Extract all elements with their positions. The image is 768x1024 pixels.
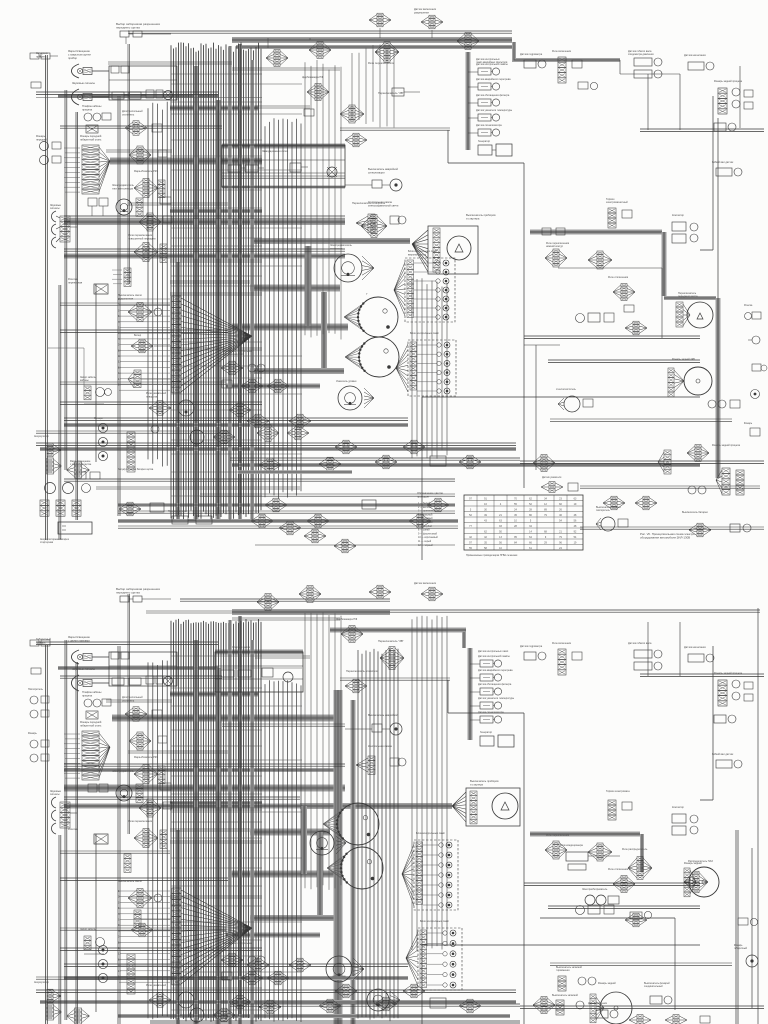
svg-text:52: 52 xyxy=(469,514,472,517)
cluster gidrometr xyxy=(520,53,546,68)
svg-text:Повторитель: Повторитель xyxy=(28,688,44,691)
conn boxes R2 lower xyxy=(221,668,293,682)
junction box R2 xyxy=(222,145,345,187)
svg-text:46: 46 xyxy=(559,514,562,517)
comp 638x915 lower xyxy=(630,911,652,919)
svg-text:Блок контрольных ламп: Блок контрольных ламп xyxy=(416,831,445,835)
svg-text:Датчик гидрометра: Датчик гидрометра xyxy=(520,645,543,648)
terminal strip 127x432 xyxy=(127,432,135,472)
wire bus y880 lower xyxy=(60,878,228,880)
svg-text:габаритный: габаритный xyxy=(734,947,748,950)
svg-text:30: 30 xyxy=(484,508,487,511)
rear lamp circle lower xyxy=(590,982,632,1024)
loom band y211 cross xyxy=(170,209,262,213)
motor vent lower xyxy=(112,769,171,802)
fan1 wires lower xyxy=(99,733,110,778)
wire trunk main lower xyxy=(171,619,261,1022)
wire bus y350 xyxy=(170,348,262,350)
conn top 378x20 xyxy=(369,13,391,27)
cluster zapor kabel xyxy=(80,376,112,404)
svg-text:Фонари: Фонари xyxy=(94,417,103,420)
rele signal circle lower xyxy=(310,831,346,855)
box 398x92 xyxy=(392,88,420,96)
wire bus y1022 lower xyxy=(150,1021,520,1023)
wire bus y205 xyxy=(128,203,228,205)
svg-text:63: 63 xyxy=(574,497,577,500)
conn 240x1000 lower xyxy=(229,995,251,1009)
motor vent circle xyxy=(116,199,132,215)
label avar xyxy=(368,167,398,174)
label perekl otop xyxy=(352,201,386,205)
wire bus y898 lower xyxy=(170,896,262,898)
loom band vertical x304 lower xyxy=(301,806,307,874)
svg-text:Датчик аварийного перегрева: Датчик аварийного перегрева xyxy=(476,78,511,81)
svg-text:Реле указателей: Реле указателей xyxy=(146,983,167,987)
svg-text:Звуковые сигналы: Звуковые сигналы xyxy=(72,667,95,671)
wire bus y481 xyxy=(64,479,455,481)
loom band R2 top lower xyxy=(215,650,303,655)
cluster circle 572x400 xyxy=(556,388,593,412)
svg-text:с двумя лампами: с двумя лампами xyxy=(68,639,90,642)
loom band trunk v5 lower xyxy=(250,640,254,1024)
conn top 430x22 xyxy=(414,7,443,29)
label header top-left xyxy=(116,22,160,30)
wire frame y945 lower xyxy=(422,945,700,1024)
svg-text:Розетка: Розетка xyxy=(744,305,753,307)
svg-text:10: 10 xyxy=(118,941,121,944)
svg-text:и стартера: и стартера xyxy=(470,783,483,786)
loom band y222 xyxy=(64,219,345,225)
svg-text:Блок кондиционера: Блок кондиционера xyxy=(560,844,583,847)
svg-text:82: 82 xyxy=(559,503,562,506)
cluster fan feed xyxy=(129,146,167,164)
lamp block 2 xyxy=(408,331,456,396)
svg-text:Датчик контрольных ламп: Датчик контрольных ламп xyxy=(478,650,509,653)
loom band right staircase xyxy=(530,232,716,298)
loom band trunk v2 lower xyxy=(216,668,221,1024)
conn 470x462 xyxy=(459,455,481,469)
battery box xyxy=(40,522,92,544)
cluster kontr lower xyxy=(356,744,406,774)
svg-text:9 — фиолетовый: 9 — фиолетовый xyxy=(418,532,438,535)
svg-text:15: 15 xyxy=(118,378,121,381)
wire bus y332 xyxy=(60,330,228,332)
wire bus right y163 xyxy=(620,60,680,74)
sensor lower Датчик указателя температуры xyxy=(470,697,514,709)
svg-text:спидометра давления: спидометра давления xyxy=(628,53,654,56)
label zabornik left xyxy=(36,51,49,58)
wire bus y843 lower xyxy=(170,841,262,843)
wire trunk main bundle xyxy=(171,42,261,519)
svg-text:Указатель уровня: Указатель уровня xyxy=(336,380,357,383)
wire trunk crossings upper lower xyxy=(171,656,302,886)
loom band y108 cross xyxy=(170,106,258,111)
svg-text:сигнализации: сигнализации xyxy=(368,171,385,174)
conn 545x462 xyxy=(533,455,555,472)
fan lampblock2 xyxy=(396,344,408,392)
svg-text:Реле включения: Реле включения xyxy=(552,642,572,645)
wire bus y33 top xyxy=(128,31,512,33)
fuse boxes xyxy=(168,510,212,524)
svg-text:42: 42 xyxy=(469,536,472,539)
conn 268x1006 lower xyxy=(259,999,341,1014)
right edge comp 368 xyxy=(752,364,767,371)
svg-text:14: 14 xyxy=(529,530,532,533)
loom band sensor ladder spine xyxy=(466,52,471,150)
svg-text:80: 80 xyxy=(529,514,532,517)
cluster rele perekl xyxy=(134,243,167,263)
wire vertical x77 lower xyxy=(76,662,78,1024)
svg-text:фарбокамера ПФ: фарбокамера ПФ xyxy=(302,75,323,79)
svg-text:Выключатель запасной: Выключатель запасной xyxy=(552,994,579,997)
svg-text:13: 13 xyxy=(499,536,502,539)
wire bus y726 box lower xyxy=(222,724,345,726)
connector boxes R2 xyxy=(228,165,264,172)
right edge comp 432 xyxy=(744,422,760,436)
label rku xyxy=(134,169,158,173)
wire bus y766 lower xyxy=(64,764,345,766)
wire vertical x59 lower xyxy=(59,835,61,1024)
wire bus right y1008 lower xyxy=(520,1006,764,1008)
cluster fen xyxy=(139,213,172,231)
svg-text:10 — коричневый: 10 — коричневый xyxy=(418,536,438,539)
lamp pair lower 1 xyxy=(28,688,49,718)
svg-text:Датчик указателя температуры: Датчик указателя температуры xyxy=(476,109,512,112)
conn boxes R1 lower xyxy=(111,652,141,685)
svg-text:92: 92 xyxy=(574,530,577,533)
conn 470x1006 lower xyxy=(459,999,481,1013)
wire bus y218 xyxy=(64,216,345,218)
svg-text:Фара-Освещение: Фара-Освещение xyxy=(68,49,90,53)
loom band trunk vertical 5 xyxy=(250,60,254,520)
ignition switch xyxy=(428,213,496,274)
wire bus right y462 xyxy=(520,461,764,463)
conn cluster diag 3 xyxy=(304,529,326,543)
cluster kontr lampa xyxy=(356,214,406,232)
rele raspred cluster lower xyxy=(622,848,652,879)
cluster vkl shtoka xyxy=(552,50,582,83)
svg-text:проводов: проводов xyxy=(417,495,429,498)
gauge circle 2 lower xyxy=(327,847,383,889)
svg-text:Реле включения: Реле включения xyxy=(552,50,572,53)
cluster datchik gibkiy lower xyxy=(628,642,662,670)
small pair 714x404 xyxy=(708,400,740,408)
loom band trunk vertical 1 xyxy=(194,66,199,522)
gauge circle 1 xyxy=(344,293,398,337)
wire vertical pair x66 xyxy=(65,90,67,470)
loom band right staircase lower xyxy=(530,834,642,872)
wire bus y979 lower xyxy=(36,977,230,979)
label perekl ZV xyxy=(378,91,404,95)
pair boxes 580x85 xyxy=(578,82,598,90)
cluster rele perekl right xyxy=(545,242,612,269)
fan lampblock1 lower xyxy=(402,844,414,906)
loom band y788 lower xyxy=(64,785,345,792)
conn 415x447 xyxy=(403,440,425,454)
lamp pair 698x490 xyxy=(688,486,706,494)
label vykl podkap xyxy=(118,293,142,300)
wire bus y128 xyxy=(60,126,222,128)
comp right 744x922 lower xyxy=(738,918,758,926)
cluster rele perekl lower xyxy=(128,819,167,848)
comp avar lower xyxy=(345,713,402,735)
conn pair b lower xyxy=(299,586,321,603)
svg-text:97: 97 xyxy=(469,497,472,500)
svg-text:35: 35 xyxy=(484,541,487,544)
right small 123 xyxy=(714,123,736,131)
loom band y371 xyxy=(250,368,344,374)
svg-text:91: 91 xyxy=(484,497,487,500)
bl circles xyxy=(45,483,91,494)
wire trunk x360 lower xyxy=(358,648,398,1021)
svg-text:переднего моста: переднего моста xyxy=(678,295,698,298)
wiper motor cluster xyxy=(596,506,628,531)
conn 634x328 xyxy=(624,305,647,335)
loom band ladder spine lower xyxy=(468,648,473,740)
svg-text:56: 56 xyxy=(499,541,502,544)
ammeter circle A xyxy=(676,292,713,328)
svg-text:26: 26 xyxy=(559,508,562,511)
junction box R2 lower xyxy=(215,645,303,692)
wire bus y513 xyxy=(118,511,455,513)
loom band y241 ignition feed xyxy=(252,238,410,244)
wire bus y95 left thin xyxy=(36,92,262,98)
headlight upper lower xyxy=(72,650,110,664)
labels fan2 numbers lower xyxy=(118,890,121,979)
label sensors top xyxy=(476,58,508,64)
wire bus y460 xyxy=(230,458,520,460)
wire size table xyxy=(464,495,583,550)
component box R2 xyxy=(290,163,308,172)
wire bus y810 lower xyxy=(170,808,262,810)
loom band wide x338 lower xyxy=(334,690,343,1024)
svg-text:Датчик нагнетания: Датчик нагнетания xyxy=(684,54,706,57)
small circle 156x428 xyxy=(151,425,159,433)
top wiring diagram sheet xyxy=(30,7,767,560)
loom band trunk vertical 2 xyxy=(216,100,221,522)
svg-text:Датчик сигнализатора: Датчик сигнализатора xyxy=(478,711,504,714)
svg-text:Фонарь задний прицепа: Фонарь задний прицепа xyxy=(714,80,743,83)
wire verticals x305-345 xyxy=(305,60,341,340)
svg-text:10: 10 xyxy=(499,547,502,550)
label fonar front xyxy=(80,134,102,141)
wire bus y130 mid xyxy=(340,128,450,130)
labels fan2 text xyxy=(118,298,121,387)
cluster kontaktor xyxy=(672,214,698,243)
legend color list xyxy=(417,491,443,547)
conn fans 270x432 xyxy=(257,425,309,442)
cluster otopitel lower xyxy=(125,707,162,721)
loom band y327 xyxy=(228,324,348,331)
svg-text:Датчик сигнализатора: Датчик сигнализатора xyxy=(476,124,502,127)
lamp block 2 lower xyxy=(418,919,462,990)
bl box rows xyxy=(40,500,81,516)
svg-text:торможения: торможения xyxy=(556,969,570,972)
connector header boxes xyxy=(120,31,171,44)
conn perekl zv xyxy=(340,105,364,123)
generator unit xyxy=(478,140,512,156)
svg-text:фарбокамера ПФ: фарбокамера ПФ xyxy=(336,617,357,621)
svg-text:Предохранитель: Предохранитель xyxy=(168,510,187,513)
wire bus y1006 lower xyxy=(230,1004,520,1006)
svg-text:Фонарь: Фонарь xyxy=(28,732,37,735)
svg-text:64: 64 xyxy=(529,536,532,539)
svg-text:56: 56 xyxy=(574,519,577,522)
loom band y806 lower xyxy=(64,804,345,809)
conn 634x920 lower xyxy=(625,913,647,927)
svg-text:49: 49 xyxy=(484,514,487,517)
svg-text:Реле переключателя: Реле переключателя xyxy=(368,61,395,65)
right edge stack top xyxy=(714,80,753,114)
tick labels fan1 xyxy=(64,148,80,192)
wire bus y658 mid lower xyxy=(255,656,310,658)
svg-text:95: 95 xyxy=(514,536,517,539)
label header lower xyxy=(116,587,160,595)
svg-text:Датчик гидрометра: Датчик гидрометра xyxy=(520,53,543,56)
conn 318x521 xyxy=(307,514,329,528)
svg-text:5 — розовый: 5 — розовый xyxy=(418,517,433,520)
cluster fen lower xyxy=(139,799,172,817)
wire bus y404 xyxy=(60,402,262,404)
loom band y465 xyxy=(232,463,700,467)
label plafon lower xyxy=(82,690,102,697)
label kontr lampa xyxy=(368,200,399,207)
wire bus y966 lower xyxy=(64,964,408,966)
loom band y800 ignition lower xyxy=(300,803,452,809)
lamp block 1 xyxy=(405,249,455,322)
plafon pair xyxy=(84,113,111,121)
wire vertical x713 right column xyxy=(700,96,713,250)
frame mid-right xyxy=(558,268,662,338)
svg-text:12: 12 xyxy=(118,953,121,956)
loom band y842 lower xyxy=(250,829,330,836)
svg-text:3: 3 xyxy=(470,508,472,511)
loom band trunk vertical 4 xyxy=(176,262,180,522)
loom band y878 lower xyxy=(228,871,334,878)
connector boxes in R1 top xyxy=(111,66,129,73)
cluster zazhig xyxy=(128,370,171,388)
svg-text:Переключатель "ЗВ": Переключатель "ЗВ" xyxy=(378,91,404,95)
fan lampblock1 xyxy=(394,262,405,316)
loom band y770 lower xyxy=(64,768,335,772)
wire bus y612 right lower xyxy=(390,610,760,612)
svg-text:Контрольная лампа: Контрольная лампа xyxy=(368,744,392,748)
bottom edge cluster lower xyxy=(629,1015,710,1024)
fan2 wires xyxy=(181,298,252,392)
loom band trunk v3 lower xyxy=(238,616,242,1024)
horn trio xyxy=(50,204,77,248)
lower circle datchik xyxy=(336,380,374,410)
loom band y521 xyxy=(118,519,458,523)
distributor circle xyxy=(668,358,712,397)
svg-text:52: 52 xyxy=(529,503,532,506)
svg-text:габаритный огонь: габаритный огонь xyxy=(80,723,102,727)
svg-text:Электрообогреватель: Электрообогреватель xyxy=(582,888,608,891)
svg-text:переднего щитка: переднего щитка xyxy=(116,26,140,30)
sensor Датчик сигнализатора xyxy=(468,124,502,136)
fan2 wires lower xyxy=(181,890,252,984)
svg-text:отопитель: отопитель xyxy=(122,113,135,116)
cluster strip 672x455 xyxy=(658,450,671,474)
svg-text:28: 28 xyxy=(529,508,532,511)
svg-text:Фонарь задний прицепа: Фонарь задний прицепа xyxy=(714,672,743,675)
svg-text:21: 21 xyxy=(559,530,562,533)
conn 545x1005 lower xyxy=(533,997,555,1014)
svg-text:Реле распределитель: Реле распределитель xyxy=(622,848,648,851)
svg-text:Габаритный: Габаритный xyxy=(36,637,51,641)
label otopitel lower xyxy=(122,695,143,702)
svg-text:6 — зелёный: 6 — зелёный xyxy=(418,521,433,524)
connector pair y47 b xyxy=(309,42,331,59)
cluster gidrometr lower xyxy=(520,645,546,660)
svg-text:62: 62 xyxy=(529,497,532,500)
conn 345x447 xyxy=(335,440,357,454)
svg-text:28: 28 xyxy=(514,525,517,528)
svg-text:23: 23 xyxy=(559,497,562,500)
conn farbokamera lower xyxy=(336,617,363,643)
svg-text:16: 16 xyxy=(484,503,487,506)
cluster otopitel conn xyxy=(125,121,162,135)
svg-text:Фара-Искатель РКУ: Фара-Искатель РКУ xyxy=(134,169,158,173)
svg-text:34: 34 xyxy=(529,525,532,528)
cluster podkap lower xyxy=(118,879,162,908)
cluster vykl zadn2 lower xyxy=(552,994,584,1015)
svg-text:24: 24 xyxy=(514,508,517,511)
bl conn 1 xyxy=(47,458,62,474)
svg-text:Генератор: Генератор xyxy=(478,140,491,143)
socket box xyxy=(86,125,98,133)
svg-text:Тормоз электромагн.: Тормоз электромагн. xyxy=(606,790,631,793)
wire bus right y338 xyxy=(524,336,700,338)
svg-text:Реле переключения: Реле переключения xyxy=(128,819,153,823)
cluster rku xyxy=(134,179,165,198)
cluster 620x884 lower xyxy=(608,868,635,893)
wire bus y295 xyxy=(170,293,262,295)
bl conn 2 xyxy=(67,462,90,478)
svg-text:Гибкий вал датчик: Гибкий вал датчик xyxy=(712,753,734,756)
loom band top bus lower xyxy=(232,612,466,630)
svg-text:12: 12 xyxy=(118,361,121,364)
right edge comp 340 xyxy=(748,336,760,344)
svg-text:Переключатель отопителя: Переключатель отопителя xyxy=(346,669,378,673)
wire bus y495 xyxy=(200,494,455,496)
conn 268x464 xyxy=(259,457,341,472)
wire bus y63 left xyxy=(108,62,232,64)
svg-text:48: 48 xyxy=(574,525,577,528)
cluster 200x1014 lower xyxy=(190,1008,235,1022)
svg-text:Выключатель аварийной: Выключатель аварийной xyxy=(368,713,398,717)
svg-text:сигналы: сигналы xyxy=(50,207,60,210)
boxes below fan1 lower xyxy=(88,784,108,792)
cluster datchik gibkiy xyxy=(628,50,662,78)
svg-text:43: 43 xyxy=(484,519,487,522)
svg-text:48: 48 xyxy=(574,514,577,517)
conn 698x452 xyxy=(687,445,709,462)
table note xyxy=(466,554,518,557)
right edge comp 316 xyxy=(744,305,761,320)
svg-text:Фонарь задний прицепа: Фонарь задний прицепа xyxy=(712,444,741,447)
wire right edge verticals lower xyxy=(752,608,758,1024)
wire right edge vertical upper xyxy=(717,118,719,298)
svg-text:15: 15 xyxy=(118,970,121,973)
svg-text:электромагнитный: электромагнитный xyxy=(606,201,628,204)
loom band junction box top edge xyxy=(222,144,345,149)
conn cluster diag 2 xyxy=(279,521,301,535)
label fonar front lower xyxy=(80,720,102,727)
label inside R2 xyxy=(262,149,288,153)
svg-text:4: 4 xyxy=(500,503,502,506)
socket box lower xyxy=(86,711,98,719)
